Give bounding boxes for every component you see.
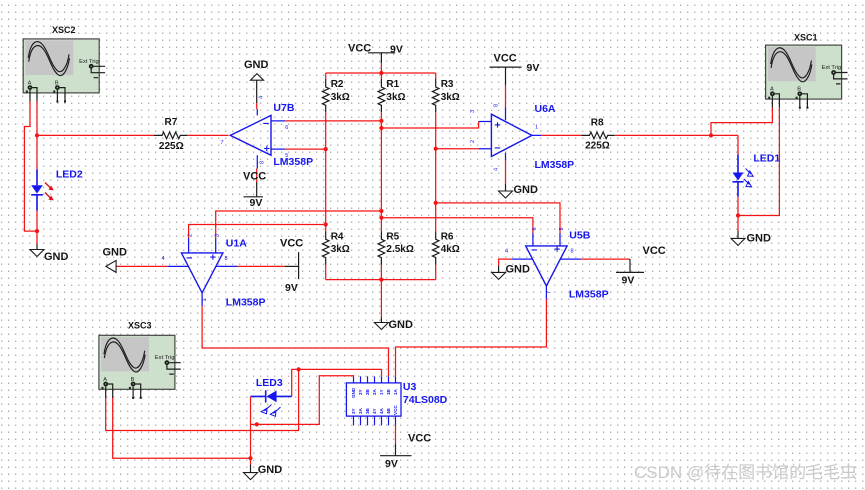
node LED3 GND	[248, 456, 252, 460]
svg-text:VCC: VCC	[393, 405, 398, 415]
svg-text:VCC: VCC	[494, 53, 517, 65]
svg-text:GND: GND	[44, 251, 69, 263]
svg-text:4kΩ: 4kΩ	[441, 244, 460, 255]
wire black lead LED1 GND	[737, 231, 739, 238]
resistor labels	[159, 79, 610, 255]
svg-text:VCC: VCC	[348, 43, 371, 55]
wire VCC top bar to R1 node	[380, 63, 382, 73]
wire GND rail down to ground	[380, 280, 382, 318]
svg-text:9V: 9V	[250, 197, 263, 209]
wire U1A pin4 to side ground	[116, 265, 168, 267]
svg-text:225Ω: 225Ω	[585, 140, 610, 151]
wire LED2 cathode to GND node	[36, 211, 38, 245]
pin name labels (rotated)	[351, 387, 398, 415]
node R7/LED2/XSC2A+	[35, 133, 39, 137]
node U1A pin2 on R2/R4 column	[324, 222, 328, 226]
wire black lead U6A GND	[505, 184, 507, 191]
svg-text:LM358P: LM358P	[273, 156, 313, 168]
wire LED3 anode up to U3 pin 1Y	[292, 369, 382, 396]
wire black lead LED2 GND	[36, 244, 38, 250]
svg-text:3Y: 3Y	[351, 408, 356, 414]
pin 12 bottom	[381, 416, 383, 425]
svg-text:LM358P: LM358P	[569, 288, 609, 300]
wire U6A pin8 to VCC	[505, 85, 507, 107]
svg-text:8: 8	[571, 249, 574, 255]
wire R6 bottom to GND rail	[435, 265, 437, 280]
wire GND rail R4-R5-R6	[326, 279, 436, 281]
svg-text:R3: R3	[441, 79, 454, 90]
wire U1A output down to bus and U3 pin 1B	[202, 306, 388, 376]
svg-text:R5: R5	[386, 231, 399, 242]
wire R5 bottom to GND rail	[380, 265, 382, 280]
svg-text:2B: 2B	[365, 388, 370, 395]
wire black lead top VCC	[380, 53, 382, 63]
pin 3 top	[367, 376, 369, 383]
svg-text:XSC2: XSC2	[52, 25, 76, 35]
wire U6A + input step to R1 column	[381, 122, 478, 129]
node U6A+ on R1 column	[379, 126, 383, 130]
svg-text:U6A: U6A	[535, 103, 556, 115]
svg-text:R6: R6	[441, 231, 454, 242]
svg-text:GND: GND	[506, 264, 531, 276]
svg-text:U7B: U7B	[273, 102, 294, 114]
svg-text:VCC: VCC	[408, 433, 431, 445]
ground GND left of U1A	[106, 260, 116, 272]
pin 1 top	[353, 376, 355, 383]
wire R7 right lead to U7B output apex	[187, 134, 228, 136]
svg-text:GND: GND	[389, 319, 414, 331]
svg-text:9V: 9V	[527, 62, 540, 74]
wire R8 to LED1 node	[615, 134, 738, 136]
svg-text:XSC1: XSC1	[794, 33, 818, 43]
wire U5B pin5 to R3/R6 column	[436, 203, 560, 233]
node U6A- on R3 column	[434, 147, 438, 151]
svg-text:2Y: 2Y	[358, 389, 363, 395]
wire U5B pin8 to VCC	[581, 258, 630, 260]
svg-text:XSC3: XSC3	[128, 321, 152, 331]
svg-text:8: 8	[494, 104, 500, 107]
svg-text:1B: 1B	[386, 388, 391, 395]
node U5B pin5 on R3/R6 column	[434, 201, 438, 205]
node LED2 cathode GND	[35, 229, 39, 233]
resistor R6	[432, 231, 439, 264]
wire U7B pin8 to 9V symbol	[256, 169, 258, 183]
svg-text:3kΩ: 3kΩ	[331, 244, 350, 255]
svg-text:R8: R8	[591, 118, 604, 129]
pin 11 bottom	[374, 416, 376, 425]
svg-text:GND: GND	[747, 233, 772, 245]
wire R2 top lead	[325, 73, 327, 79]
wire black lead LED3 GND	[250, 465, 252, 473]
LED LED2 (points down, red arrows)	[31, 169, 54, 210]
wire black lead U1A VCC	[285, 265, 299, 267]
wire LED1 cathode to GND node	[737, 197, 739, 231]
svg-text:8: 8	[260, 161, 266, 164]
svg-text:8: 8	[225, 256, 228, 262]
svg-text:GND: GND	[351, 387, 356, 398]
node U5B pin6 on R5 column	[379, 216, 383, 220]
svg-text:R7: R7	[165, 117, 178, 128]
pin 2 top	[360, 376, 362, 383]
wire U5B pin4 to ground	[499, 259, 512, 266]
ground GND under LED1	[731, 238, 745, 245]
LED LED1 (points down, blue arrows)	[733, 155, 754, 197]
oscilloscope XSC2	[23, 39, 105, 103]
svg-text:3kΩ: 3kΩ	[386, 92, 405, 103]
wire LED3 cathode down to GND	[250, 396, 252, 464]
wire U7B inverting input to R1 column	[285, 120, 382, 122]
power bar 9V under U7B	[244, 196, 264, 198]
svg-text:GND: GND	[514, 184, 539, 196]
svg-text:4: 4	[494, 168, 500, 171]
svg-text:6: 6	[532, 227, 538, 230]
wire U5B output down to U3 pin 1A	[396, 299, 547, 376]
oscilloscope XSC3	[99, 335, 181, 399]
wire U7B non-inverting input to R2 column	[285, 148, 326, 150]
wire black lead R5 GND	[380, 318, 382, 323]
wire U3 VCC pin down	[395, 425, 397, 444]
svg-text:4Y: 4Y	[372, 408, 377, 414]
svg-text:U5B: U5B	[569, 229, 590, 241]
ground GND left of U5B	[492, 272, 506, 279]
pin 4 top	[374, 376, 376, 383]
svg-text:225Ω: 225Ω	[159, 141, 184, 152]
wire XSC3 A+ to LED3 anode node	[106, 369, 299, 430]
power bar VCC right of U1A (vertical)	[298, 252, 300, 279]
svg-text:4: 4	[505, 249, 508, 255]
node LED3 cathode rail	[255, 422, 259, 426]
wire U1A pin2 up-right to R2/R4 column	[189, 225, 326, 239]
svg-text:LM358P: LM358P	[535, 159, 575, 171]
wire XSC3 A- to LED3 cathode/GND node	[113, 398, 251, 459]
svg-text:2.5kΩ: 2.5kΩ	[386, 244, 413, 255]
oscilloscope XSC1	[766, 45, 848, 109]
resistor R5	[378, 231, 385, 264]
ground GND under LED3	[244, 473, 258, 480]
pin 6 top	[388, 376, 390, 383]
node U7B+ on R2 column	[324, 147, 328, 151]
wire black lead U5B GND	[498, 266, 500, 273]
power bar VCC top	[368, 52, 395, 54]
wire black lead U5B VCC	[629, 259, 631, 272]
svg-text:9V: 9V	[385, 458, 398, 470]
svg-text:U1A: U1A	[226, 237, 247, 249]
svg-text:R4: R4	[331, 231, 344, 242]
svg-text:9V: 9V	[622, 275, 635, 287]
svg-text:GND: GND	[244, 59, 269, 71]
svg-text:3kΩ: 3kΩ	[331, 92, 350, 103]
ground GND under R5 rail	[374, 323, 388, 330]
svg-text:2A: 2A	[372, 388, 377, 395]
pin 8 bottom	[353, 416, 355, 425]
svg-text:7: 7	[221, 140, 224, 146]
op-amp U6A (points right)	[479, 107, 541, 160]
LED LED3 (points left, blue arrows)	[251, 390, 292, 416]
svg-text:VCC: VCC	[243, 171, 266, 183]
node U7B- on R1 column	[379, 119, 383, 123]
power/ground labels	[44, 43, 771, 476]
wire R2 bottom to R4 top (through U7B+ node)	[325, 112, 327, 231]
svg-text:74LS08D: 74LS08D	[403, 394, 448, 406]
pin 5 top	[381, 376, 383, 383]
svg-text:CSDN @待在图书馆的毛毛虫: CSDN @待在图书馆的毛毛虫	[634, 463, 857, 482]
ground GND under U6A	[499, 191, 513, 198]
svg-text:5: 5	[559, 227, 565, 230]
op-amp U7B (points left)	[230, 109, 285, 169]
instrument labels	[52, 25, 818, 331]
svg-text:4: 4	[259, 96, 265, 99]
wire XSC2 A- leg down-left jog to LED2 cathode node	[24, 101, 37, 231]
pin 13 bottom	[388, 416, 390, 425]
node GND rail	[379, 278, 383, 282]
svg-text:2: 2	[470, 140, 476, 143]
svg-text:9V: 9V	[390, 44, 403, 56]
svg-text:LED1: LED1	[753, 153, 780, 165]
wire U1A pin8 to VCC bar	[237, 265, 285, 267]
wire LED1 node step up to XSC1 A+	[711, 108, 772, 136]
svg-text:LM358P: LM358P	[226, 296, 266, 308]
wire R1 bottom to R5 top	[380, 112, 382, 231]
node R8/LED1/XSC1	[709, 133, 713, 137]
wire R4 bottom to GND rail	[325, 265, 327, 280]
svg-text:R2: R2	[331, 79, 344, 90]
resistor R2	[322, 79, 329, 112]
IC U3 74LS08D	[346, 376, 401, 425]
wire LED2 anode from node	[36, 135, 38, 169]
svg-text:3kΩ: 3kΩ	[441, 92, 460, 103]
svg-text:6: 6	[285, 125, 288, 131]
node VCC rail top	[379, 71, 383, 75]
svg-text:R1: R1	[386, 79, 399, 90]
wire LED3 cathode branch to U3 GND pin	[251, 376, 354, 425]
op-amp U5B (points down)	[512, 233, 581, 299]
svg-text:1A: 1A	[393, 388, 398, 395]
svg-text:4A: 4A	[379, 407, 384, 414]
power bar VCC above U6A	[490, 66, 522, 68]
wire U5B pin6 to R5 column	[381, 218, 533, 233]
ground GND above U7B	[251, 74, 264, 81]
op-amp U1A (points down)	[168, 238, 237, 306]
ground GND under LED2	[30, 250, 44, 257]
svg-text:3A: 3A	[358, 407, 363, 414]
wire black lead U3 VCC	[395, 444, 397, 456]
wire U7B pin4 to GND symbol	[256, 103, 258, 109]
pin numbers (small blue)	[162, 96, 574, 302]
svg-text:VCC: VCC	[280, 238, 303, 250]
node LED1 cathode	[736, 213, 740, 217]
wire node to R7 left lead	[37, 134, 154, 136]
blue component labels	[56, 102, 781, 406]
svg-text:3: 3	[215, 234, 221, 237]
svg-text:2: 2	[188, 234, 194, 237]
pin 9 bottom	[360, 416, 362, 425]
wire LED1 GND node to XSC1 A-	[738, 108, 779, 216]
wire R3 bottom to R6 top	[435, 112, 437, 231]
node LED3 anode rail	[297, 367, 301, 371]
svg-text:U3: U3	[403, 381, 417, 393]
wire black lead U7B pin4 to GND symbol	[256, 80, 258, 103]
resistor R4	[322, 231, 329, 264]
resistor R8	[581, 132, 614, 139]
resistor R3	[432, 79, 439, 112]
svg-text:4B: 4B	[386, 407, 391, 414]
svg-text:VCC: VCC	[643, 245, 666, 257]
wire U6A output to R8	[541, 134, 581, 136]
resistor R1	[378, 79, 385, 112]
9V labels	[250, 44, 635, 471]
svg-text:3: 3	[470, 110, 476, 113]
svg-text:1: 1	[535, 125, 538, 131]
wire U6A - input to R3 column	[436, 148, 479, 150]
wire U6A pin4 to GND	[505, 160, 507, 184]
power bar VCC right of U5B	[616, 271, 644, 273]
resistor R7	[154, 132, 187, 139]
wire black lead U6A VCC	[505, 67, 507, 85]
svg-text:GND: GND	[103, 247, 128, 259]
wire black lead U7B pin8 to 9V bar	[256, 182, 258, 197]
svg-text:9V: 9V	[285, 282, 298, 294]
svg-text:3B: 3B	[365, 407, 370, 414]
node U1A pin3 on R1/R5 column	[379, 209, 383, 213]
svg-text:7: 7	[547, 291, 553, 294]
wire R1 top lead	[380, 73, 382, 79]
wire R3 top lead	[435, 73, 437, 79]
wire U1A pin3 up-right to R1/R5 column	[216, 211, 382, 238]
wire XSC2 A+ leg to R7/LED2 node	[36, 101, 38, 135]
svg-text:4: 4	[162, 256, 165, 262]
wire LED1 anode down	[737, 135, 739, 154]
svg-text:GND: GND	[258, 464, 283, 476]
svg-text:LED2: LED2	[56, 168, 83, 180]
power bar VCC under U3	[380, 455, 412, 457]
pin 7 top	[395, 376, 397, 383]
wire VCC rail R2-R1-R3	[326, 72, 436, 74]
svg-text:1: 1	[202, 298, 208, 301]
pin 14 bottom	[395, 416, 397, 425]
pin 10 bottom	[367, 416, 369, 425]
svg-text:LED3: LED3	[256, 377, 283, 389]
svg-text:5: 5	[285, 153, 288, 159]
svg-text:1Y: 1Y	[379, 389, 384, 395]
